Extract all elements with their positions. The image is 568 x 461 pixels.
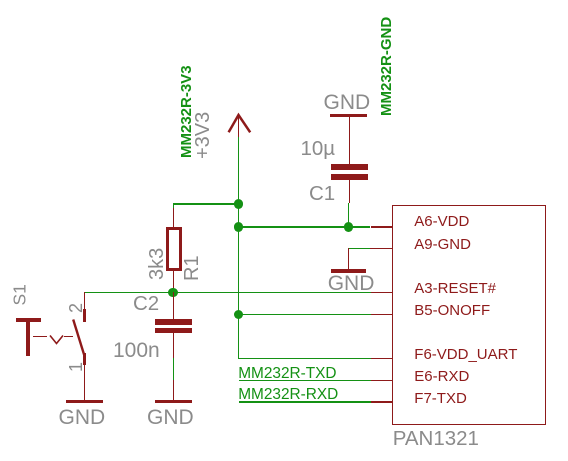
pin stub F6-VDD_UART bbox=[371, 358, 393, 359]
pin stub E6-RXD bbox=[371, 380, 393, 381]
capacitor C1 plate 1 bbox=[331, 164, 367, 170]
junction node on 3V3 rail at VDD branch bbox=[234, 222, 244, 232]
wire B5-ONOFF horizontal bbox=[238, 314, 370, 315]
capacitor C2 pin top bbox=[173, 292, 174, 319]
junction node ONOFF branch bbox=[234, 310, 244, 320]
net label MM232R-TXD bbox=[238, 366, 336, 381]
capacitor C2 plate 2 bbox=[155, 328, 192, 334]
pin name A9-GND bbox=[414, 237, 471, 252]
wire F7-TXD net bbox=[239, 401, 371, 402]
ground label GND under C2 bbox=[147, 407, 194, 428]
switch S1 pin 1 stub bbox=[84, 365, 85, 400]
value label 10µ bbox=[301, 139, 336, 160]
switch S1 contact 2 bbox=[83, 309, 86, 322]
junction node C1/VDD bbox=[344, 222, 354, 232]
switch S1 pin 2 stub bbox=[84, 292, 85, 309]
switch S1 plunger cap bbox=[16, 318, 41, 322]
wire E6-RXD net bbox=[239, 380, 371, 381]
value label 3k3 bbox=[147, 248, 167, 280]
pin name F6-VDD_UART bbox=[414, 347, 517, 362]
pin name B5-ONOFF bbox=[414, 303, 490, 318]
pin name E6-RXD bbox=[414, 369, 469, 384]
name label S1 bbox=[11, 284, 29, 305]
IC PAN1321 box bbox=[392, 205, 546, 425]
wire RESET net horizontal bbox=[85, 292, 371, 293]
power symbol +3V3 arrow bbox=[220, 105, 260, 145]
pin stub B5-ONOFF bbox=[371, 314, 393, 315]
pin stub F7-TXD bbox=[371, 401, 393, 402]
name label C2 bbox=[133, 294, 159, 315]
resistor R1 body bbox=[166, 227, 182, 272]
ground label GND at A9 bbox=[328, 273, 375, 294]
ground pin at A9 bbox=[348, 248, 349, 269]
pin name A6-VDD bbox=[414, 214, 469, 229]
ground label GND above C1 bbox=[324, 92, 371, 113]
pin stub A6-VDD bbox=[371, 226, 393, 227]
ground pin under C2 bbox=[173, 380, 174, 400]
switch S1 contact 1 bbox=[83, 353, 86, 365]
pin label 1 bbox=[67, 361, 85, 371]
pin stub A3-RESET# bbox=[371, 292, 393, 293]
wire 3V3 horizontal to R1 bbox=[173, 203, 239, 204]
switch S1 lever bbox=[68, 315, 90, 360]
name label PAN1321 bbox=[393, 429, 479, 450]
wire VDD net horizontal bbox=[238, 226, 370, 227]
wire C2 to ground bbox=[173, 358, 174, 381]
net label MM232R-RXD bbox=[238, 387, 338, 402]
power symbol +3V3 stem pin bbox=[238, 114, 239, 137]
capacitor C1 pin bottom bbox=[349, 180, 350, 203]
pin name F7-TXD bbox=[414, 391, 467, 406]
ground symbol under C2 bbox=[155, 400, 192, 403]
capacitor C2 plate 1 bbox=[155, 319, 192, 325]
value label +3V3 bbox=[193, 111, 213, 158]
wire 3V3 vertical rail bbox=[238, 137, 239, 358]
value label 100n bbox=[113, 340, 160, 361]
capacitor C2 pin bottom bbox=[173, 333, 174, 357]
switch S1 linkage dash 2 bbox=[64, 336, 73, 338]
ground pin into C1 bbox=[349, 117, 350, 164]
name label R1 bbox=[182, 255, 202, 281]
net label MM232R-3V3 bbox=[179, 65, 194, 158]
wire C1 to VDD net bbox=[348, 203, 349, 227]
resistor R1 pin bottom bbox=[173, 271, 174, 293]
ground label GND under S1 bbox=[59, 407, 106, 428]
wire R1 top green stub bbox=[173, 203, 174, 208]
ground symbol at A9 bbox=[331, 269, 366, 273]
pin label 2 bbox=[67, 303, 85, 313]
switch S1 linkage dash 1 bbox=[33, 336, 47, 338]
ground symbol under S1 bbox=[66, 400, 103, 403]
wire F6-VDD_UART horizontal bbox=[238, 358, 371, 359]
net label MM232R-GND bbox=[379, 17, 394, 116]
pin stub A9-GND bbox=[370, 248, 392, 249]
junction node R1/C2/RESET bbox=[168, 288, 178, 298]
capacitor C1 plate 2 bbox=[331, 174, 367, 180]
ground symbol above C1 bbox=[330, 114, 367, 117]
resistor R1 pin top bbox=[173, 208, 174, 227]
junction node on 3V3 rail upper bbox=[234, 199, 244, 209]
switch S1 linkage notch bbox=[48, 330, 70, 348]
pin name A3-RESET# bbox=[414, 281, 496, 296]
wire A9-GND horizontal bbox=[348, 248, 370, 249]
name label C1 bbox=[309, 184, 335, 205]
switch S1 plunger stem bbox=[26, 320, 30, 356]
